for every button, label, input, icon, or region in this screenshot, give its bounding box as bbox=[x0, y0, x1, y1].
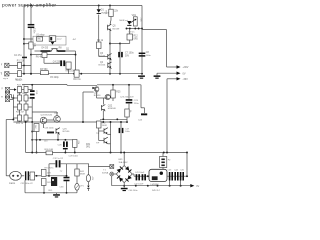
potentiometer VR2 bbox=[66, 62, 71, 69]
wire v44 bbox=[43, 58, 45, 64]
resistor R22b bbox=[24, 95, 28, 101]
svg-text:R1 22k: R1 22k bbox=[17, 61, 25, 63]
svg-text:R31: R31 bbox=[86, 144, 91, 146]
node row140c bbox=[64, 139, 66, 141]
node rt bbox=[48, 175, 50, 177]
wire g3 bbox=[56, 193, 58, 194]
transistor Q1 inverted bbox=[51, 49, 58, 52]
wire J1 right bbox=[9, 64, 31, 66]
capacitor C27 elco bbox=[119, 128, 121, 133]
wire v66 b bbox=[66, 181, 68, 193]
node bot c bbox=[43, 73, 45, 75]
terminal J4 bbox=[5, 92, 9, 96]
wire rows v1 bbox=[19, 93, 21, 96]
ground G3 bbox=[53, 194, 60, 196]
node rail a bbox=[30, 5, 32, 7]
svg-text:C41 10mF: C41 10mF bbox=[135, 172, 145, 174]
resistor R25b bbox=[125, 109, 129, 117]
node db5 bbox=[180, 185, 182, 187]
diode BD1 bbox=[117, 166, 124, 173]
wire rows v2 bbox=[25, 93, 27, 96]
capacitor C43c bbox=[180, 172, 182, 181]
wire q27 emit bbox=[108, 143, 111, 145]
svg-text:osc2: osc2 bbox=[57, 39, 62, 41]
node r1193b bbox=[116, 118, 118, 120]
wire to output bbox=[141, 29, 143, 30]
wire u2 right bbox=[167, 175, 187, 177]
ground G1 bbox=[138, 75, 145, 77]
terminal J2 bbox=[5, 72, 9, 76]
wire r11 down bbox=[110, 17, 112, 21]
resistor R9 bbox=[97, 42, 102, 49]
svg-text:BC556: BC556 bbox=[63, 131, 70, 133]
wire r12 up bbox=[129, 30, 131, 35]
wire q21 lstub bbox=[83, 91, 94, 93]
node r1193a bbox=[102, 118, 104, 120]
node t2 bbox=[129, 28, 131, 30]
ground G2 bbox=[154, 75, 161, 77]
wire c32 l bbox=[49, 163, 55, 165]
terminal arrow psu bbox=[190, 184, 194, 187]
wire j2 stub bbox=[24, 43, 33, 45]
wire c23 down bbox=[128, 104, 130, 109]
node in row bbox=[23, 64, 25, 66]
resistor R24a bbox=[18, 115, 22, 121]
wire mid row140 bbox=[32, 139, 75, 141]
svg-text:0V: 0V bbox=[196, 185, 199, 188]
wire left col bbox=[23, 6, 25, 74]
node mrt bbox=[112, 84, 114, 86]
svg-text:R24 1k: R24 1k bbox=[16, 123, 24, 125]
svg-text:C46 100n: C46 100n bbox=[129, 190, 139, 192]
node m122b bbox=[82, 121, 84, 123]
wire br top up bbox=[123, 153, 125, 166]
svg-text:C2 47u: C2 47u bbox=[14, 55, 22, 57]
svg-text:BC546: BC546 bbox=[99, 56, 106, 58]
svg-text:mains: mains bbox=[9, 183, 16, 185]
plug P1 bbox=[10, 171, 22, 180]
wire attn h bbox=[6, 119, 13, 121]
resistor R32 bbox=[97, 121, 102, 128]
svg-text:U1 relay: U1 relay bbox=[36, 34, 45, 37]
wire f2 dn bbox=[162, 168, 164, 170]
resistor R2 bbox=[18, 71, 22, 77]
resistor R1 bbox=[18, 62, 22, 68]
resistor R12 box bbox=[127, 34, 133, 40]
diode BD2 bbox=[125, 166, 132, 173]
component inside U1 bbox=[49, 36, 56, 42]
svg-text:Q22: Q22 bbox=[108, 105, 113, 107]
node row546 r bbox=[75, 54, 77, 56]
node r5 j2 bbox=[30, 73, 32, 75]
capacitor C8 bbox=[139, 53, 146, 55]
resistor R27 bold bbox=[47, 132, 54, 134]
wire v141 jog bbox=[141, 107, 145, 109]
wire row546b bbox=[47, 54, 76, 56]
wire q26 emit bbox=[108, 133, 111, 135]
wire c32 lv bbox=[48, 164, 50, 176]
wire R5 down bbox=[30, 49, 32, 74]
svg-text:Q23 BC546: Q23 BC546 bbox=[41, 114, 53, 116]
wire v66 bbox=[66, 164, 68, 177]
wire v121b bbox=[120, 133, 122, 152]
wire c26 down bbox=[64, 150, 66, 153]
node bot f bbox=[109, 73, 111, 75]
terminal J3 bbox=[5, 87, 9, 91]
wire row63 bbox=[44, 62, 60, 64]
wire vd1 top bbox=[87, 164, 89, 175]
transistor Q22 bbox=[102, 105, 106, 112]
bleeder VD1 oval bbox=[86, 175, 90, 182]
node brb bbox=[123, 185, 125, 187]
node v31 a bbox=[31, 131, 33, 133]
node r26 a bbox=[36, 139, 38, 141]
wire mid bottom rail bbox=[26, 152, 187, 154]
node t4 bbox=[138, 28, 140, 30]
svg-text:35A 400V: 35A 400V bbox=[119, 161, 129, 164]
wire q23 down bbox=[43, 124, 45, 128]
wire J4 r bbox=[10, 94, 12, 96]
resistor R23b bbox=[24, 104, 28, 110]
svg-text:BC556: BC556 bbox=[99, 65, 106, 67]
wire q26 base bbox=[99, 130, 104, 132]
wire q27 base bbox=[99, 140, 104, 142]
wire v32 down bbox=[31, 122, 33, 153]
capacitor C2 bar bbox=[22, 57, 27, 59]
node br rail bbox=[123, 152, 125, 154]
wire right col bbox=[141, 6, 143, 74]
node v66 bbox=[66, 175, 68, 177]
wire r29 down bbox=[74, 147, 76, 152]
svg-text:100n: 100n bbox=[33, 28, 36, 34]
transformer T1 box bbox=[110, 165, 114, 169]
capacitor C31 bbox=[25, 171, 26, 180]
node attn bbox=[12, 119, 14, 121]
node v31 b bbox=[31, 139, 33, 141]
wire r26 stub bbox=[32, 131, 34, 133]
svg-text:C29 100n: C29 100n bbox=[69, 155, 79, 157]
svg-text:100n: 100n bbox=[146, 55, 152, 57]
svg-text:C5 220p: C5 220p bbox=[50, 77, 59, 79]
resistor R3 bbox=[41, 71, 49, 75]
wire row2 r bbox=[28, 97, 32, 99]
svg-text:680R: 680R bbox=[80, 174, 85, 176]
wire t1 down bbox=[111, 176, 113, 186]
node mrt2 bbox=[128, 84, 130, 86]
wire j1 stub bbox=[24, 38, 33, 40]
wire r9 to q3 bbox=[99, 56, 108, 58]
transistor Q22b circle bbox=[105, 94, 110, 99]
capacitor C43b bbox=[174, 172, 176, 181]
wire vd1 bot bbox=[87, 189, 89, 191]
node db2 bbox=[147, 185, 149, 187]
resistor R10 bbox=[74, 70, 79, 77]
wire f1 r bbox=[35, 175, 42, 177]
node v187b bbox=[186, 175, 188, 177]
wire r32 down bbox=[98, 128, 100, 141]
node bot e bbox=[80, 73, 82, 75]
node pb2 bbox=[66, 192, 68, 194]
wire c31 r bbox=[29, 175, 30, 177]
svg-text:C9 1n: C9 1n bbox=[129, 32, 136, 34]
wire out1 v bbox=[166, 30, 168, 68]
transistor Q24 oval bbox=[54, 116, 61, 123]
svg-text:R25: R25 bbox=[116, 92, 121, 94]
svg-text:BC556: BC556 bbox=[94, 95, 101, 97]
transistor Q3 bbox=[108, 54, 112, 61]
wire row4 l bbox=[13, 117, 17, 119]
wire v121 up bbox=[120, 122, 122, 128]
transistor Q4 bbox=[108, 62, 112, 69]
svg-text:50V: 50V bbox=[125, 56, 130, 58]
svg-text:10R: 10R bbox=[47, 182, 51, 184]
resistor R24b bbox=[24, 115, 28, 121]
svg-text:MJE340: MJE340 bbox=[108, 108, 117, 110]
diode VD1b bbox=[87, 186, 89, 188]
wire f2 up bbox=[162, 153, 164, 157]
resistor R7 bold bbox=[41, 50, 51, 52]
wire nfb rail bbox=[22, 84, 67, 86]
wire v77 bbox=[76, 164, 78, 169]
wire row1 bbox=[22, 89, 25, 91]
wire c23 up bbox=[128, 85, 130, 99]
svg-text:sig in: sig in bbox=[3, 78, 9, 80]
resistor R23a bbox=[18, 104, 22, 110]
wire top rail bbox=[24, 5, 142, 7]
capacitor C41a bbox=[136, 174, 138, 180]
node bot d bbox=[73, 73, 75, 75]
capacitor C7 elco bbox=[118, 52, 120, 57]
wire q25 down bbox=[57, 134, 59, 140]
svg-text:R12: R12 bbox=[134, 36, 139, 38]
transistor Q25 bbox=[56, 128, 60, 135]
wire q22 up bbox=[103, 98, 105, 105]
wire diode col bbox=[98, 6, 100, 10]
wire left edge drop bbox=[5, 120, 7, 176]
wire c1 col top bbox=[30, 6, 32, 25]
wire q5 down bbox=[109, 31, 111, 74]
resistor RT1 bbox=[41, 170, 46, 177]
node f2 bbox=[163, 152, 165, 154]
wire br right bbox=[132, 173, 134, 175]
transformer T1 circle bbox=[110, 172, 114, 176]
capacitor C32 bypass bbox=[56, 160, 58, 167]
wire row546 bbox=[31, 54, 42, 56]
node bot a bbox=[23, 73, 25, 75]
node db4 bbox=[169, 185, 171, 187]
svg-text:0R1: 0R1 bbox=[86, 147, 91, 149]
svg-text:R10 1k: R10 1k bbox=[73, 79, 81, 81]
wire c1 to R5 bbox=[30, 28, 32, 42]
svg-text:C32 1u X2: C32 1u X2 bbox=[53, 158, 64, 160]
wire J2 right bottom rail bbox=[9, 73, 143, 75]
wire psu bottom right bbox=[112, 185, 194, 187]
wire r9 down bbox=[98, 49, 100, 57]
node bot h bbox=[141, 73, 143, 75]
wire J3 r bbox=[10, 89, 15, 91]
diode BD3 bbox=[117, 175, 124, 182]
node J4 row bbox=[12, 97, 14, 99]
capacitor C41b bbox=[142, 174, 144, 180]
wire v187 bbox=[186, 153, 188, 177]
svg-text:R22 10k: R22 10k bbox=[17, 93, 26, 95]
terminal arrow out3 bbox=[177, 77, 181, 80]
wire v256 bbox=[25, 122, 27, 153]
diode D1 bbox=[97, 9, 101, 13]
node mb3 bbox=[74, 152, 76, 154]
wire sec link bbox=[88, 166, 109, 168]
wire r25b down bbox=[126, 117, 128, 122]
fuse F2 box bbox=[160, 157, 167, 168]
wire out3 v bbox=[166, 79, 168, 153]
wire q21 down bbox=[96, 92, 98, 96]
wire trim row bbox=[127, 28, 143, 30]
wire elco vr2 bbox=[65, 62, 67, 64]
module box U1 bbox=[33, 36, 66, 45]
node link b bbox=[119, 43, 121, 45]
diode D3 bbox=[127, 21, 131, 25]
wire r12 down bbox=[129, 40, 131, 44]
wire c31 down bbox=[24, 180, 26, 193]
svg-text:500R set: 500R set bbox=[119, 19, 128, 22]
node m122a bbox=[31, 121, 33, 123]
node mb4 bbox=[110, 152, 112, 154]
fuse F2 stripes bbox=[161, 159, 164, 161]
resistor RT2 bbox=[41, 179, 46, 186]
resistor R11 bbox=[109, 9, 113, 16]
wire row4 r bbox=[28, 117, 32, 119]
arrow q21 bbox=[92, 87, 95, 90]
wire psu bottom left bbox=[25, 192, 77, 194]
node nfb bbox=[31, 84, 33, 86]
wire t1 right bbox=[114, 173, 117, 175]
wire q24 up bbox=[56, 112, 58, 116]
wire row51 left bbox=[35, 50, 41, 52]
node t3 bbox=[134, 28, 136, 30]
resistor R29 bbox=[73, 140, 78, 148]
capacitor C4 elco bbox=[60, 60, 62, 66]
arrow in1 bbox=[14, 88, 17, 91]
resistor R22a bbox=[18, 95, 22, 101]
capacitor C23 elco bbox=[126, 99, 133, 101]
capacitor C43a bbox=[169, 172, 171, 181]
svg-text:300VA: 300VA bbox=[102, 171, 109, 174]
wire out1 h bbox=[167, 66, 178, 68]
wire row3 r bbox=[28, 106, 32, 108]
transistor Q23 oval bbox=[40, 117, 47, 124]
capacitor C33 elco bbox=[64, 177, 70, 179]
svg-text:R30 10R: R30 10R bbox=[45, 149, 54, 151]
terminal J5 bbox=[5, 97, 9, 101]
svg-text:100R: 100R bbox=[102, 125, 107, 127]
bridge BR1 frame bbox=[116, 166, 132, 183]
svg-text:R23 4k7: R23 4k7 bbox=[16, 112, 25, 114]
lamp LP1 bbox=[75, 183, 79, 190]
node pb1 bbox=[43, 192, 45, 194]
wire q5 col bbox=[109, 6, 111, 10]
wire d1 down bbox=[98, 15, 100, 42]
transistor Q5 bbox=[108, 24, 112, 31]
resistor R8 bold bbox=[58, 50, 66, 52]
wire psu y176 bbox=[49, 175, 67, 177]
wire c21 down bbox=[31, 99, 33, 122]
capacitor C26 elco bbox=[63, 141, 65, 147]
transistor Q27 bbox=[104, 137, 108, 144]
node v256 top bbox=[25, 121, 27, 123]
svg-text:0R5: 0R5 bbox=[134, 38, 139, 40]
svg-text:C7 100u: C7 100u bbox=[125, 53, 134, 55]
svg-text:BD139: BD139 bbox=[113, 28, 120, 30]
node v121 top bbox=[120, 121, 122, 123]
node bot b bbox=[30, 73, 32, 75]
node mb5 bbox=[120, 152, 122, 154]
svg-text:C25 100n: C25 100n bbox=[44, 127, 54, 129]
node rail b bbox=[98, 5, 100, 7]
wire nfb rail jog bbox=[66, 84, 68, 87]
node psu1 bbox=[36, 175, 38, 177]
svg-text:220u: 220u bbox=[134, 103, 140, 105]
wire mid rail2 bbox=[13, 121, 127, 123]
svg-text:-36V: -36V bbox=[183, 78, 189, 81]
wire v14 bbox=[12, 95, 14, 120]
node mb6 bbox=[166, 152, 168, 154]
terminal arrow out1 bbox=[177, 65, 181, 68]
wire c32 r bbox=[61, 163, 89, 165]
marks inside U1 bbox=[50, 37, 52, 40]
wire g2 stub bbox=[156, 73, 158, 75]
wire q23 q24 bbox=[47, 119, 54, 121]
wire v120 bbox=[119, 44, 121, 74]
node v1105a bbox=[110, 121, 112, 123]
node r26 b bbox=[36, 152, 38, 154]
node mb2 bbox=[64, 152, 66, 154]
wire out2 h bbox=[157, 72, 177, 74]
node m122d bbox=[126, 121, 128, 123]
wire r25 bbox=[112, 85, 114, 90]
wire v76 down bbox=[75, 51, 77, 70]
node t5 bbox=[141, 28, 143, 30]
node row140a bbox=[39, 139, 41, 141]
node rail c bbox=[109, 5, 111, 7]
resistor R21b bbox=[24, 87, 28, 93]
wire v1105 bbox=[110, 122, 112, 153]
wire row3 l bbox=[13, 106, 17, 108]
trimmer VR1 bbox=[133, 17, 137, 26]
wire plug right bbox=[21, 175, 24, 177]
node v187a bbox=[186, 152, 188, 154]
wire c45 d bbox=[180, 181, 182, 186]
wire c21 stub bbox=[31, 85, 33, 90]
wire v141 bbox=[140, 85, 142, 108]
transistor Q26 bbox=[104, 128, 108, 135]
node r5 j1 bbox=[30, 54, 32, 56]
relay RL1 bbox=[51, 177, 57, 186]
wire link ext bbox=[120, 43, 130, 45]
ground G4 bbox=[121, 188, 128, 190]
wire br bottom bbox=[123, 183, 125, 188]
wire row1193 bbox=[100, 118, 127, 120]
svg-text:VR2 10k: VR2 10k bbox=[65, 71, 75, 73]
wire link bbox=[110, 43, 120, 45]
capacitor C21 elco bbox=[30, 90, 35, 92]
wire vd1 mid bbox=[87, 182, 89, 186]
resistor R6 box bbox=[42, 53, 47, 58]
node db3 bbox=[157, 185, 159, 187]
regulator U2 bbox=[149, 169, 167, 181]
capacitor C1 bbox=[28, 24, 35, 26]
node left col j2 bbox=[23, 43, 25, 45]
wire out3 h bbox=[167, 78, 177, 80]
